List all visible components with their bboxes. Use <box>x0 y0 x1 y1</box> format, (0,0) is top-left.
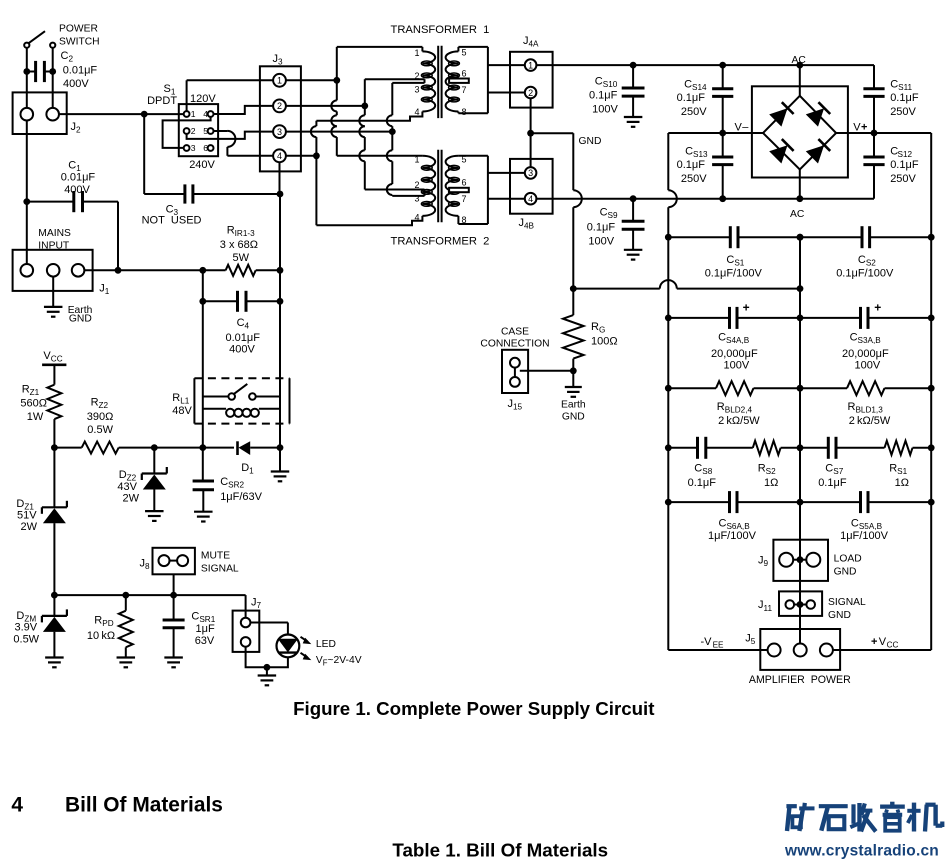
svg-text:0.1μF: 0.1μF <box>890 92 919 104</box>
connector J4B <box>510 159 553 214</box>
svg-text:0.01μF: 0.01μF <box>226 332 261 344</box>
connector J3 pins <box>273 74 286 162</box>
relay RL1 contact switch <box>203 384 280 400</box>
svg-text:1: 1 <box>277 76 282 86</box>
svg-text:2: 2 <box>191 126 196 136</box>
svg-text:10 kΩ: 10 kΩ <box>87 630 115 642</box>
label J1 <box>99 283 110 297</box>
wire GND row with hop over left rail <box>573 280 800 289</box>
caption Figure 1 <box>293 698 654 719</box>
svg-text:51V: 51V <box>17 509 37 521</box>
svg-text:0.1μF: 0.1μF <box>818 477 847 489</box>
svg-text:0.1μF: 0.1μF <box>589 90 618 102</box>
connector J7 <box>233 611 260 652</box>
label SIGNAL GND <box>828 597 866 621</box>
wire J1 to RIR1-3 <box>84 267 226 274</box>
svg-text:400V: 400V <box>63 78 89 90</box>
svg-text:1: 1 <box>414 155 419 165</box>
wire switch-right to J2-2 <box>52 48 54 108</box>
svg-text:8: 8 <box>462 107 467 117</box>
capacitors CS4A,B and CS3A,B row <box>668 301 931 329</box>
label POWER SWITCH <box>59 24 100 48</box>
label CS3A,B 20000uF 100V <box>842 332 889 372</box>
connector J9 <box>773 540 828 581</box>
svg-text:240V: 240V <box>189 159 215 171</box>
wire V- left rail vertical <box>665 133 677 650</box>
label RS1 1ohm <box>889 463 909 489</box>
wire C1 right down to J1 row <box>117 202 119 271</box>
svg-text:0.1μF: 0.1μF <box>677 159 706 171</box>
capacitor CSR1 with ground <box>163 595 185 667</box>
wire GND net J4A-2 to J4B-3 <box>527 98 573 167</box>
label DZ1 51V 2W <box>16 498 37 533</box>
svg-text:2: 2 <box>277 101 282 111</box>
svg-text:100Ω: 100Ω <box>591 336 618 348</box>
label CS13 0.1uF 250V <box>677 146 708 185</box>
wire T1 secondary to J4A <box>458 47 525 113</box>
svg-text:2 kΩ/5W: 2 kΩ/5W <box>849 415 891 427</box>
wire J3-2 out <box>286 105 365 107</box>
wire J2-1 down to J1-1 <box>23 120 30 264</box>
bridge rectifier diamond with diodes <box>763 65 836 199</box>
svg-text:1μF/63V: 1μF/63V <box>220 491 262 503</box>
wire V+ right rail vertical <box>928 133 935 650</box>
svg-text:1μF/100V: 1μF/100V <box>708 530 757 542</box>
label Earth GND at RG <box>561 400 586 423</box>
svg-text:V: V <box>735 121 743 133</box>
svg-text:0.1μF: 0.1μF <box>890 159 919 171</box>
diode D1 <box>238 441 281 455</box>
resistors RBLD2,4 and RBLD1,3 row <box>668 381 931 395</box>
svg-text:390Ω: 390Ω <box>87 411 114 423</box>
label CS4A,B 20000uF 100V <box>711 332 758 372</box>
svg-text:0.1μF/100V: 0.1μF/100V <box>836 268 894 280</box>
capacitor CS11 <box>863 65 884 136</box>
label CS14 0.1uF 250V <box>677 79 708 118</box>
wire RZ1 to RZ2 <box>51 444 82 451</box>
label CS7 0.1uF <box>818 463 847 489</box>
label RBLD1,3 2kohm/5W <box>848 401 891 427</box>
wire down to C3 <box>143 114 145 194</box>
svg-text:3: 3 <box>414 85 419 95</box>
wire S1 pin1 to J3-1 <box>187 80 274 111</box>
svg-text:www.crystalradio.cn: www.crystalradio.cn <box>784 843 939 860</box>
caption Table 1 <box>392 840 608 861</box>
wire V+ row <box>836 132 931 134</box>
wire to T2 pin1 <box>337 155 423 157</box>
label RBLD2,4 2kohm/5W <box>717 401 761 427</box>
wire net J3-1 vertical to T1 pin1 and T2 pin1 <box>331 47 340 156</box>
label TRANSFORMER 1 <box>391 24 490 36</box>
svg-text:20,000μF: 20,000μF <box>842 348 889 360</box>
capacitor CS9 with ground <box>622 199 645 260</box>
earth ground at J1 <box>44 276 63 316</box>
wire LED to J7-2 with ground <box>246 647 288 686</box>
svg-text:GND: GND <box>562 412 585 423</box>
svg-text:AC: AC <box>792 55 807 66</box>
capacitor C2 <box>23 61 56 82</box>
zener diode DZ1 <box>42 448 67 595</box>
svg-text:0.5W: 0.5W <box>87 424 113 436</box>
svg-text:1: 1 <box>191 109 196 119</box>
svg-text:1Ω: 1Ω <box>764 477 778 489</box>
label C3 NOT USED <box>142 204 202 227</box>
svg-text:1μF/100V: 1μF/100V <box>840 530 889 542</box>
svg-text:+: + <box>874 301 881 315</box>
label LOAD GND <box>834 554 862 578</box>
label J9 <box>758 555 769 569</box>
wire J3-1 out <box>286 79 337 81</box>
svg-text:6: 6 <box>462 178 467 188</box>
svg-text:3: 3 <box>191 143 196 153</box>
svg-text:MAINS: MAINS <box>38 228 71 239</box>
label J3 <box>273 53 284 67</box>
capacitors CS6A,B and CS5A,B row <box>668 491 931 513</box>
svg-text:3: 3 <box>277 127 282 137</box>
label LED VF~2V-4V <box>316 639 362 667</box>
svg-text:250V: 250V <box>890 173 916 185</box>
svg-text:+: + <box>743 301 750 315</box>
svg-text:7: 7 <box>462 85 467 95</box>
wire to D1 <box>203 447 234 449</box>
svg-text:400V: 400V <box>64 184 90 196</box>
label -VEE <box>701 636 725 650</box>
svg-text:4: 4 <box>11 794 23 817</box>
svg-text:GND: GND <box>828 610 851 621</box>
connector J1 <box>13 250 93 291</box>
capacitor CS10 with ground <box>622 65 645 127</box>
svg-text:+: + <box>861 121 867 133</box>
label CS11 0.1uF 250V <box>890 79 919 118</box>
svg-text:MUTE: MUTE <box>201 551 230 562</box>
label J4B <box>519 217 535 231</box>
label RIR1-3 3x68ohm 5W <box>220 225 258 265</box>
svg-text:3 x 68Ω: 3 x 68Ω <box>220 239 258 251</box>
svg-text:5: 5 <box>203 126 208 136</box>
VCC supply terminal <box>42 350 66 385</box>
wire GND vertical with hop over AC rail <box>570 133 582 292</box>
label RZ1 560ohm 1W <box>20 384 47 423</box>
label J5 <box>745 633 756 647</box>
label CS10 0.1uF 100V <box>589 75 618 115</box>
svg-text:DPDT: DPDT <box>147 95 177 107</box>
wire S1 pin2 to J3-3 <box>187 132 274 139</box>
wire switch-left to J2-1 <box>26 48 28 108</box>
svg-text:1Ω: 1Ω <box>895 477 909 489</box>
switch S1 body <box>179 104 218 156</box>
svg-text:S12: S12 <box>898 150 913 159</box>
transformer T1 <box>414 46 468 118</box>
svg-text:250V: 250V <box>890 106 916 118</box>
svg-text:48V: 48V <box>172 405 192 417</box>
svg-text:4: 4 <box>203 109 208 119</box>
svg-text:V: V <box>853 121 861 133</box>
label D1 <box>241 462 254 476</box>
connector J5 <box>760 629 840 670</box>
capacitor C4 <box>199 291 283 312</box>
label CSR2 1uF/63V <box>220 476 262 503</box>
svg-text:GND: GND <box>579 136 602 147</box>
svg-text:560Ω: 560Ω <box>20 398 47 410</box>
wire to T2 pin3 <box>392 195 424 197</box>
svg-text:100V: 100V <box>588 235 614 247</box>
svg-text:2 kΩ/5W: 2 kΩ/5W <box>718 415 760 427</box>
svg-text:250V: 250V <box>681 106 707 118</box>
svg-text:63V: 63V <box>195 635 215 647</box>
svg-text:EE: EE <box>713 641 724 650</box>
J3 pin numbers <box>277 76 282 162</box>
svg-text:1: 1 <box>528 60 533 70</box>
svg-text:1: 1 <box>414 48 419 58</box>
wire S1 pin5 to J3-4 with hop <box>214 131 274 156</box>
power switch S (POWER SWITCH) <box>24 31 55 48</box>
label AC bottom <box>790 209 805 220</box>
wire S1 jumper pin4 to pin3 <box>163 117 211 148</box>
resistor RIR1-3 <box>226 265 284 276</box>
ground at D1 cathode <box>271 444 290 481</box>
svg-text:TRANSFORMER 2: TRANSFORMER 2 <box>391 235 490 247</box>
wire J2 to S1 with junction node <box>59 111 184 118</box>
label AMPLIFIER POWER <box>749 674 851 686</box>
svg-text:43V: 43V <box>117 481 137 493</box>
svg-text:V: V <box>879 636 887 648</box>
wire J3-4 out <box>286 152 320 159</box>
capacitor CS13 <box>712 133 733 202</box>
capacitor C3 NOT USED <box>144 184 283 203</box>
svg-text:0.01μF: 0.01μF <box>61 172 96 184</box>
wire S1 pin4 to J3-2 <box>214 106 274 114</box>
svg-text:6: 6 <box>203 143 208 153</box>
svg-text:0.1μF: 0.1μF <box>688 477 717 489</box>
svg-text:0.1μF/100V: 0.1μF/100V <box>705 268 763 280</box>
svg-text:CONNECTION: CONNECTION <box>480 338 549 349</box>
wire GND mid rail vertical <box>797 234 804 644</box>
svg-text:6: 6 <box>462 69 467 79</box>
label CS6A,B 1uF/100V <box>708 518 757 542</box>
wire T1 pin4 to J3-4 net <box>311 112 423 156</box>
svg-text:NOT USED: NOT USED <box>142 215 202 227</box>
wire to T1 pin1 <box>337 47 423 52</box>
label J2 <box>71 121 82 135</box>
wire J3-4 net to T2 pin4 <box>316 156 422 226</box>
svg-text:LED: LED <box>316 639 336 650</box>
svg-text:-V: -V <box>701 636 713 648</box>
watermark logo crystalradio <box>784 802 942 860</box>
svg-text:Figure 1. Complete Power Suppl: Figure 1. Complete Power Supply Circuit <box>293 698 654 719</box>
LED light arrows <box>301 637 312 660</box>
wire down to J7 <box>245 595 247 618</box>
S1 pin numbers <box>191 109 208 153</box>
connector J15 <box>502 350 528 393</box>
svg-text:Table 1. Bill Of Materials: Table 1. Bill Of Materials <box>392 840 608 861</box>
wire J7-1 to LED <box>250 623 288 635</box>
svg-text:1W: 1W <box>27 411 44 423</box>
svg-text:4: 4 <box>414 213 419 223</box>
label RZ2 390ohm 0.5W <box>87 397 114 437</box>
wire to T2 pin2 <box>365 190 425 196</box>
label C4 0.01uF 400V <box>226 317 261 356</box>
J4B pin numbers <box>528 168 533 204</box>
label RS2 1ohm <box>758 463 779 489</box>
svg-text:4: 4 <box>277 151 282 161</box>
capacitor CS14 <box>712 65 733 133</box>
label Earth GND <box>68 305 93 324</box>
svg-text:CC: CC <box>51 355 63 364</box>
connector J8 <box>153 548 195 595</box>
label J8 <box>140 558 151 572</box>
svg-text:100V: 100V <box>855 360 881 372</box>
svg-text:~2V-4V: ~2V-4V <box>328 655 362 666</box>
label DZ2 43V 2W <box>117 469 139 505</box>
labels V- and V+ <box>735 121 868 133</box>
svg-text:TRANSFORMER 1: TRANSFORMER 1 <box>391 24 490 36</box>
J4A pin numbers <box>528 60 533 97</box>
wire V- row to left rail <box>668 132 722 134</box>
svg-text:7: 7 <box>462 194 467 204</box>
wire T2 secondary to J4B <box>458 156 525 224</box>
svg-text:3.9V: 3.9V <box>15 622 38 634</box>
connector J11 <box>779 591 822 616</box>
svg-text:2: 2 <box>528 88 533 98</box>
svg-text:5: 5 <box>462 48 467 58</box>
capacitor CS7 and resistor RS1 <box>800 437 931 459</box>
capacitors CS1 and CS2 row <box>668 226 931 248</box>
label CS8 0.1uF <box>688 463 717 489</box>
label CASE CONNECTION <box>480 327 549 350</box>
svg-text:CC: CC <box>887 641 899 650</box>
svg-text:5W: 5W <box>233 252 250 264</box>
heading 4 Bill Of Materials <box>11 794 222 817</box>
bridge rectifier body <box>752 86 848 177</box>
transformer T2 <box>414 150 468 225</box>
resistor RPD with ground <box>117 595 136 667</box>
label RPD 10kohm <box>87 614 115 642</box>
svg-text:AMPLIFIER POWER: AMPLIFIER POWER <box>749 674 851 686</box>
svg-text:0.01μF: 0.01μF <box>63 65 98 77</box>
svg-text:3: 3 <box>528 168 533 178</box>
label J11 <box>758 599 772 613</box>
capacitor CSR2 with ground <box>193 448 214 522</box>
svg-text:–: – <box>742 121 749 133</box>
resistor RG with earth ground <box>563 289 584 397</box>
svg-text:AC: AC <box>790 209 805 220</box>
svg-text:GND: GND <box>834 567 857 578</box>
wire AC bottom rail from J4B-4 <box>536 195 874 202</box>
svg-text:2W: 2W <box>123 492 140 504</box>
wire mute row <box>54 592 245 599</box>
svg-text:20,000μF: 20,000μF <box>711 348 758 360</box>
wire to T1 pin3 <box>392 82 424 84</box>
connector J2 <box>13 92 67 134</box>
label DZM 3.9V 0.5W <box>13 610 39 646</box>
wire J3-4 net vertical v280 <box>279 162 282 447</box>
svg-text:2: 2 <box>414 180 419 190</box>
svg-text:1μF: 1μF <box>196 623 215 635</box>
label J4A <box>523 35 539 49</box>
label CSR1 1uF 63V <box>191 610 215 647</box>
relay RL1 coil <box>203 409 280 417</box>
label CS9 0.1uF 100V <box>587 207 618 248</box>
svg-text:GND: GND <box>69 314 92 325</box>
svg-text:0.5W: 0.5W <box>13 634 39 646</box>
wire AC top rail from J4A-1 <box>536 62 874 69</box>
label CS1 0.1uF/100V <box>705 254 763 280</box>
label J7 <box>251 597 262 611</box>
svg-text:100V: 100V <box>724 360 750 372</box>
wire V- row to bridge <box>719 130 763 137</box>
connector J4A <box>510 52 553 108</box>
svg-text:CASE: CASE <box>501 327 529 338</box>
label RG 100ohm <box>591 321 618 348</box>
connector J3 body <box>260 66 301 171</box>
svg-text:100V: 100V <box>592 104 618 116</box>
wire left vertical v203 <box>202 270 204 447</box>
label S1 DPDT <box>147 83 177 107</box>
svg-text:Earth: Earth <box>561 400 586 411</box>
label MAINS INPUT <box>38 228 71 252</box>
wire net J3-3 vertical to T1 pin3 and T2 pin3 <box>387 83 396 196</box>
svg-text:250V: 250V <box>681 173 707 185</box>
svg-text:2: 2 <box>414 71 419 81</box>
label CS5A,B 1uF/100V <box>840 518 889 542</box>
LED D2 <box>277 635 300 658</box>
svg-text:2W: 2W <box>21 521 38 533</box>
svg-text:0.1μF: 0.1μF <box>587 221 616 233</box>
label C1 0.01uF 400V <box>61 160 96 197</box>
label C2 0.01uF 400V <box>61 50 98 90</box>
svg-text:+: + <box>871 636 877 648</box>
capacitor C1 <box>27 191 118 212</box>
label CS2 0.1uF/100V <box>836 254 894 280</box>
zener diode DZ2 with ground <box>142 448 167 521</box>
label RL1 48V <box>172 392 192 417</box>
svg-text:SWITCH: SWITCH <box>59 37 100 48</box>
svg-text:LOAD: LOAD <box>834 554 862 565</box>
wire J3-3 out <box>286 131 392 133</box>
label MUTE SIGNAL <box>201 551 239 575</box>
label CS12 0.1uF 250V <box>890 146 919 185</box>
svg-text:SIGNAL: SIGNAL <box>201 564 239 575</box>
wire to T1 pin2 <box>365 79 425 83</box>
capacitor CS12 <box>863 133 884 199</box>
wire net J3-2 vertical to T1 pin2 and T2 pin2 <box>359 79 368 189</box>
labels 120V 240V <box>189 93 216 171</box>
relay RL1 body (dashed) <box>194 378 289 423</box>
label TRANSFORMER 2 <box>391 235 490 247</box>
wire J15 to RG node <box>520 370 574 372</box>
svg-text:4: 4 <box>528 194 533 204</box>
label GND <box>579 136 602 147</box>
resistor RZ2 <box>82 442 207 454</box>
capacitor CS8 and resistor RS2 <box>668 437 800 459</box>
resistor RZ1 <box>47 385 61 448</box>
svg-text:POWER: POWER <box>59 24 98 35</box>
svg-text:SIGNAL: SIGNAL <box>828 597 866 608</box>
zener diode DZM with ground <box>42 592 67 668</box>
wires -VEE and +VCC to J5 <box>668 649 931 651</box>
svg-text:0.1μF: 0.1μF <box>677 92 706 104</box>
svg-text:3: 3 <box>414 194 419 204</box>
switch S1 pins <box>184 111 214 151</box>
svg-text:4: 4 <box>414 107 419 117</box>
svg-text:400V: 400V <box>229 344 255 356</box>
label J15 <box>508 398 523 412</box>
label AC top <box>792 55 807 66</box>
label +VCC <box>871 636 899 650</box>
svg-text:Bill Of Materials: Bill Of Materials <box>65 794 223 817</box>
